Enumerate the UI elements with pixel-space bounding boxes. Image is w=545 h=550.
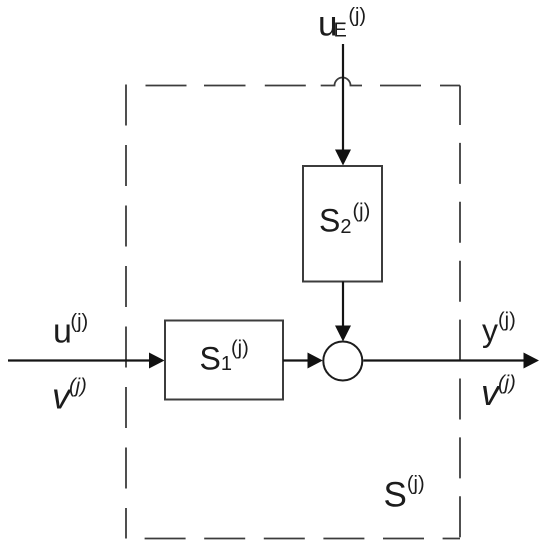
dashed system boundary: bottom edge (126, 538, 460, 540)
arrowhead into circle left (308, 353, 323, 369)
arrowhead into S2 (335, 150, 351, 166)
wire: vertical line from u_E label down to S2 (342, 44, 344, 151)
arrowhead into circle (335, 326, 351, 342)
arrowhead output (524, 353, 540, 369)
block S2 (303, 166, 382, 282)
wire: main input line from left (8, 359, 150, 361)
arrowhead into S1 (149, 353, 165, 369)
dashed system boundary: left edge (125, 85, 127, 539)
block S1 (165, 321, 283, 400)
dashed system boundary: top edge with hop over u_E line (146, 78, 461, 86)
dashed system boundary: right edge (459, 86, 461, 539)
wire: S1 to summing circle (283, 359, 309, 361)
wire: output line from circle to right (363, 359, 524, 361)
wire: S2 bottom to summing circle (342, 282, 344, 328)
summing junction circle (323, 342, 362, 381)
